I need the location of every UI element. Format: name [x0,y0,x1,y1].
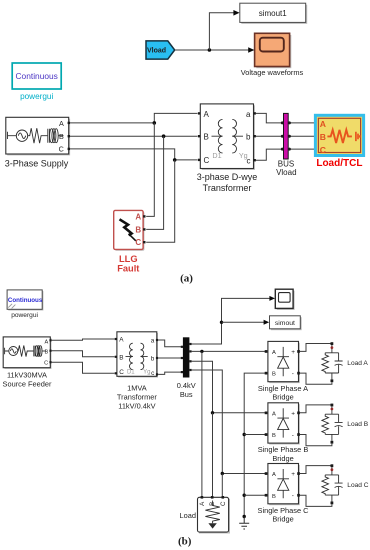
wire fault riser B [146,136,163,229]
wire Vload to scope [175,49,250,51]
transformer b ports left [115,338,117,340]
ground symbol [239,517,249,530]
wire feeder A to transformer [52,339,115,340]
svg-text:Vload: Vload [276,168,296,177]
feeder icon AC source [5,348,9,354]
junction phase B drop [211,411,214,414]
load B red dot [331,408,334,411]
svg-text:B: B [272,433,276,439]
junction phase A drop [200,350,203,353]
junction on scope riser [220,321,223,324]
svg-text:powergui: powergui [20,92,53,101]
transformer b ports right [156,339,158,341]
wire phase B drop to Load [212,413,214,496]
svg-text:Bridge: Bridge [272,393,293,402]
transformer 1MVA 11kV/0.4kV [115,332,158,411]
transformer b winding primary [130,343,133,369]
junction neutral at bridge B [243,433,246,436]
bridge B [258,403,309,463]
supply icon inductor [48,129,50,143]
wire neutral to bridge B [244,434,265,436]
wire bridge B + to load B [300,405,332,413]
svg-text:Transformer: Transformer [203,183,252,193]
From tag Vload [146,41,175,59]
svg-text:D1: D1 [127,369,135,375]
svg-text:a: a [151,338,155,345]
wire bridge C + to load C [300,466,332,474]
junction phase C drop [221,472,224,475]
svg-text:A: A [320,119,326,129]
wire junction to simout [222,321,265,323]
svg-text:Yg: Yg [143,369,150,375]
wire phase A drop to Load [201,351,203,496]
3-Phase Supply block [5,117,70,168]
svg-text:C: C [320,145,326,155]
load B capacitor [335,414,343,434]
load B resistor [322,414,329,434]
wire load A bottom to bridge A - [300,373,332,384]
svg-text:Vload: Vload [147,48,166,55]
svg-text:Yg: Yg [239,151,248,160]
svg-text:B: B [204,133,209,142]
svg-text:Fault: Fault [117,264,139,274]
svg-text:simout1: simout1 [259,9,288,18]
svg-text:11kV/0.4kV: 11kV/0.4kV [118,401,155,410]
wire transformer b to bus to load B [256,135,316,137]
transformer ports left [198,112,200,114]
svg-text:B: B [272,372,276,378]
wire bus phase A to bridge A [192,350,266,352]
fault lightning bolt [120,219,132,235]
wire transformer a to bus to load A [256,113,316,123]
svg-text:Continuous: Continuous [16,71,58,81]
svg-text:C: C [220,501,227,506]
svg-text:-: - [292,493,294,500]
svg-text:+: + [291,471,295,478]
load C group [300,464,369,506]
wire neutral bridge A to ground [244,373,266,516]
wire load C bottom to bridge C - [300,495,332,506]
svg-text:1MVA: 1MVA [127,384,147,393]
wire bus phase B to bridge B [192,361,266,413]
junction phase B [162,134,166,138]
svg-text:Load A: Load A [347,360,368,367]
svg-text:b: b [246,133,251,142]
wire transformer a to bus [158,340,183,347]
simout block (b) [270,316,302,330]
svg-text:D1: D1 [212,151,221,160]
svg-text:A: A [135,212,141,221]
svg-text:B: B [320,132,326,142]
transformer ports right [254,112,256,114]
transformer winding stub [212,135,244,137]
svg-text:-: - [292,370,294,377]
svg-text:-: - [292,432,294,439]
powergui block (a) [12,63,61,101]
bridge B ports [265,412,268,415]
svg-text:C: C [204,156,210,165]
svg-text:Bridge: Bridge [272,454,293,463]
svg-text:3-phase D-wye: 3-phase D-wye [197,172,258,182]
load C top port [331,464,334,467]
bus BUS Vload [276,113,296,176]
bridge C ports [265,472,268,475]
junction neutral at bridge C [243,494,246,497]
svg-text:Load/TCL: Load/TCL [316,158,362,169]
svg-text:Load: Load [180,511,196,520]
supply icon AC source [8,132,17,139]
fault ports [143,215,145,217]
wire fault riser A [146,123,154,216]
bridge A ports [265,350,268,353]
svg-text:C: C [44,361,48,367]
bridge C diode [277,469,289,498]
transformer b winding secondary [141,343,144,369]
load C bottom port [331,502,334,505]
arrowhead into scope [269,296,275,301]
feeder icon inductor [34,346,35,357]
load A RC branch [325,345,338,380]
wire feeder C to transformer [52,362,115,373]
Load ground arrow icon [208,523,216,528]
wire load B bottom to bridge B - [300,435,332,446]
load B group [300,404,369,446]
scope Voltage waveforms [241,33,304,77]
load A bottom port [331,379,334,382]
svg-text:Single Phase C: Single Phase C [258,506,310,515]
transformer winding secondary [232,119,236,153]
bus b ports right [189,343,191,345]
svg-text:Continuous: Continuous [8,297,43,304]
svg-text:B: B [119,354,123,361]
svg-text:powergui: powergui [11,312,38,319]
bridge A [258,341,308,401]
svg-text:A: A [272,411,276,417]
svg-text:Single Phase A: Single Phase A [258,384,308,393]
svg-text:+: + [291,349,295,356]
wire transformer c to bus to load C [256,149,316,160]
svg-text:C: C [119,369,124,376]
svg-text:Load C: Load C [347,482,369,489]
Load/TCL resistor icon [327,130,351,143]
svg-text:Source Feeder: Source Feeder [3,379,52,388]
arrowhead into simout1 [233,10,239,16]
svg-text:C: C [135,238,141,247]
transformer 3-phase D-wye [197,104,258,193]
load C resistor [322,475,329,495]
supply ports [68,122,70,124]
svg-text:A: A [272,472,276,478]
bridge B diode [277,408,289,437]
svg-text:a: a [246,110,251,119]
svg-text:Transformer: Transformer [117,393,158,402]
wire phase C drop to Load [221,474,223,497]
svg-text:11kV30MVA: 11kV30MVA [7,371,47,380]
svg-text:3-Phase Supply: 3-Phase Supply [5,158,69,168]
wire bus phase C to bridge C [192,370,266,474]
wire feeder B to transformer [52,351,115,357]
junction on Vload wire [208,48,212,52]
svg-text:Bus: Bus [180,390,193,399]
svg-text:+: + [291,410,295,417]
Load ports top [201,496,204,499]
ground node dot [243,515,246,518]
bus 0.4kV [177,337,196,399]
svg-text:B: B [59,132,64,141]
svg-text:C: C [59,145,64,154]
scope block (b) [275,289,294,310]
Load resistor icon [205,501,219,524]
load A group [300,342,369,384]
bridge C [258,464,310,524]
feeder ports [49,339,51,341]
junction phase A [153,121,157,125]
svg-text:A: A [59,119,64,128]
wire supply C to transformer C [70,149,198,160]
load A red dot [331,346,334,349]
wire transformer b to bus [158,357,183,359]
load C RC branch [325,467,338,502]
svg-text:A: A [204,110,210,119]
svg-text:b: b [151,355,155,362]
wire neutral to bridge C [244,494,265,496]
load B RC branch [325,406,338,441]
wire supply B to transformer B [70,135,198,137]
svg-text:Bridge: Bridge [272,515,293,524]
svg-text:B: B [272,494,276,500]
LLG Fault block [114,210,146,273]
wire transformer c to bus [158,372,183,374]
svg-text:LLG: LLG [119,254,138,264]
wire junction up to simout1 [209,13,233,50]
junction phase C [173,158,177,162]
load B top port [331,404,334,407]
svg-text:B: B [135,225,141,234]
transformer winding primary [218,119,222,153]
supply icon resistor [28,128,48,143]
bus ports [281,121,284,124]
load A capacitor [335,353,343,373]
simout1 block [240,3,307,24]
svg-text:B: B [44,349,48,355]
svg-text:Single Phase B: Single Phase B [258,445,309,454]
wire bus to scope [192,298,271,344]
load B bottom port [331,441,334,444]
wire fault riser C [146,160,175,242]
load A top port [331,342,334,345]
svg-text:A: A [44,339,48,345]
svg-text:simout: simout [275,320,295,327]
svg-text:Load B: Load B [347,421,369,428]
arrowhead into scope [248,47,254,53]
load A resistor [322,353,329,373]
source feeder 11kV30MVA [3,337,52,389]
svg-text:(b): (b) [178,536,192,548]
load C red dot [331,468,334,471]
svg-text:A: A [272,350,276,356]
feeder icon resistor [18,345,34,356]
Load/TCL block [315,115,363,169]
transformer b winding stub [126,355,148,357]
load C capacitor [335,475,343,495]
svg-text:Voltage waveforms: Voltage waveforms [241,68,304,77]
bridge A diode [277,347,289,376]
wire supply A to transformer A [70,113,198,123]
svg-text:A: A [119,337,124,344]
svg-text:0.4kV: 0.4kV [177,381,196,390]
Load block (bottom) [180,496,230,534]
bus b ports left [181,346,183,348]
arrowhead into simout [264,320,270,325]
svg-text:(a): (a) [180,272,193,284]
Load/TCL ground icon [356,132,360,141]
powergui block (b) [7,290,43,319]
wire bridge A + to load A [300,344,332,352]
